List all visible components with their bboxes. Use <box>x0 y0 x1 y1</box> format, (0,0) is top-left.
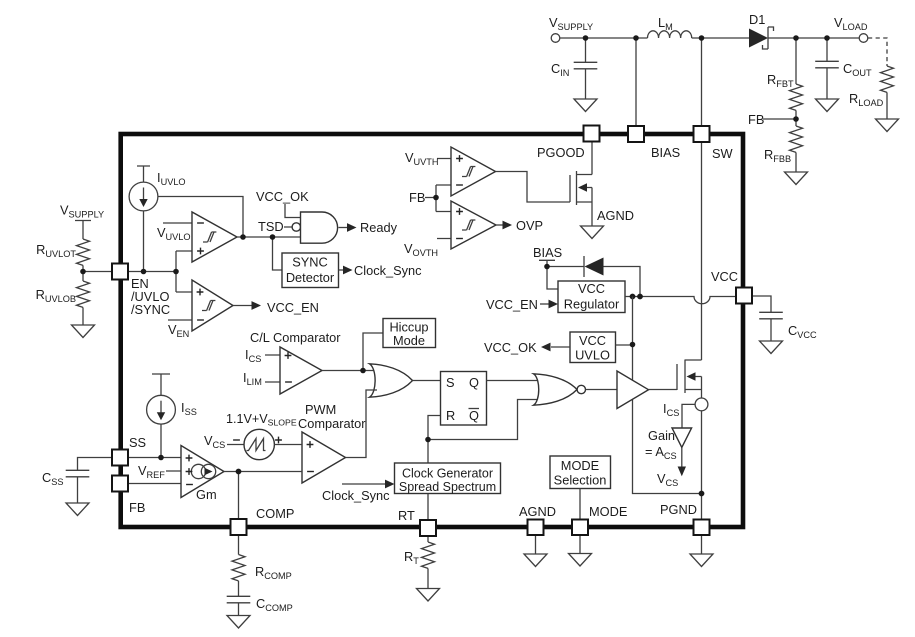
svg-text:RFBT: RFBT <box>767 72 794 89</box>
svg-text:CVCC: CVCC <box>788 323 817 340</box>
svg-text:Gain: Gain <box>648 428 675 443</box>
svg-text:VSUPPLY: VSUPPLY <box>60 203 104 220</box>
svg-text:= ACS: = ACS <box>645 444 677 461</box>
svg-text:VEN: VEN <box>168 322 189 339</box>
svg-text:VCC: VCC <box>578 281 605 296</box>
svg-text:Ready: Ready <box>360 220 398 235</box>
svg-text:R: R <box>446 408 455 423</box>
svg-text:VCC_OK: VCC_OK <box>484 340 537 355</box>
svg-text:/SYNC: /SYNC <box>131 302 170 317</box>
svg-text:RLOAD: RLOAD <box>849 91 884 108</box>
svg-text:Regulator: Regulator <box>564 297 620 312</box>
svg-text:CIN: CIN <box>551 61 569 78</box>
svg-text:ICS: ICS <box>245 347 261 364</box>
svg-text:COMP: COMP <box>256 506 294 521</box>
svg-text:VCS: VCS <box>204 433 225 450</box>
svg-text:ILIM: ILIM <box>243 370 262 387</box>
svg-text:PGND: PGND <box>660 502 697 517</box>
svg-text:TSD: TSD <box>258 219 284 234</box>
svg-text:UVLO: UVLO <box>575 348 610 363</box>
svg-text:MODE: MODE <box>589 504 627 519</box>
svg-text:Q: Q <box>469 408 479 423</box>
svg-text:RT: RT <box>398 508 415 523</box>
svg-text:VSUPPLY: VSUPPLY <box>549 15 593 32</box>
svg-text:RT: RT <box>404 549 419 566</box>
svg-text:SYNC: SYNC <box>292 255 328 270</box>
svg-text:SW: SW <box>712 146 734 161</box>
svg-text:Selection: Selection <box>554 473 607 488</box>
svg-text:MODE: MODE <box>561 458 599 473</box>
svg-text:1.1V+VSLOPE: 1.1V+VSLOPE <box>226 412 297 428</box>
svg-text:PWM: PWM <box>305 402 336 417</box>
svg-text:S: S <box>446 375 455 390</box>
svg-text:Q: Q <box>469 375 479 390</box>
svg-text:CCOMP: CCOMP <box>256 596 293 613</box>
svg-text:VCC: VCC <box>711 269 738 284</box>
svg-text:AGND: AGND <box>519 504 556 519</box>
svg-text:LM: LM <box>658 15 673 32</box>
svg-text:RCOMP: RCOMP <box>255 564 292 581</box>
svg-text:FB: FB <box>129 500 145 515</box>
svg-text:VCS: VCS <box>657 471 678 488</box>
svg-text:VLOAD: VLOAD <box>834 15 868 32</box>
svg-text:VOVTH: VOVTH <box>404 241 438 258</box>
svg-text:RUVLOT: RUVLOT <box>36 242 76 259</box>
svg-text:Detector: Detector <box>286 270 335 285</box>
svg-text:VREF: VREF <box>138 463 165 480</box>
svg-text:BIAS: BIAS <box>533 245 562 260</box>
svg-text:COUT: COUT <box>843 61 872 78</box>
svg-text:D1: D1 <box>749 12 765 27</box>
svg-text:FB: FB <box>748 112 764 127</box>
svg-text:Comparator: Comparator <box>298 416 366 431</box>
svg-text:RFBB: RFBB <box>764 147 791 164</box>
svg-text:PGOOD: PGOOD <box>537 145 585 160</box>
svg-text:ICS: ICS <box>663 401 679 418</box>
svg-text:Spread Spectrum: Spread Spectrum <box>399 480 496 494</box>
svg-text:AGND: AGND <box>597 208 634 223</box>
svg-text:VUVTH: VUVTH <box>405 150 439 167</box>
svg-text:Clock_Sync: Clock_Sync <box>354 263 422 278</box>
svg-text:Mode: Mode <box>393 333 425 348</box>
svg-text:RUVLOB: RUVLOB <box>36 287 76 304</box>
svg-text:Gm: Gm <box>196 487 217 502</box>
svg-text:VCC_EN: VCC_EN <box>486 297 538 312</box>
svg-text:SS: SS <box>129 435 146 450</box>
svg-text:OVP: OVP <box>516 218 543 233</box>
svg-text:Clock Generator: Clock Generator <box>402 467 493 481</box>
svg-text:VUVLO: VUVLO <box>157 225 191 242</box>
svg-text:VCC_OK: VCC_OK <box>256 189 309 204</box>
svg-text:FB: FB <box>409 190 425 205</box>
svg-text:IUVLO: IUVLO <box>157 170 186 187</box>
svg-text:CSS: CSS <box>42 470 64 487</box>
svg-text:VCC_EN: VCC_EN <box>267 300 319 315</box>
svg-text:VCC: VCC <box>579 333 606 348</box>
svg-text:Clock_Sync: Clock_Sync <box>322 488 390 503</box>
svg-text:ISS: ISS <box>181 400 197 417</box>
svg-text:BIAS: BIAS <box>651 145 680 160</box>
svg-text:C/L Comparator: C/L Comparator <box>250 330 341 345</box>
